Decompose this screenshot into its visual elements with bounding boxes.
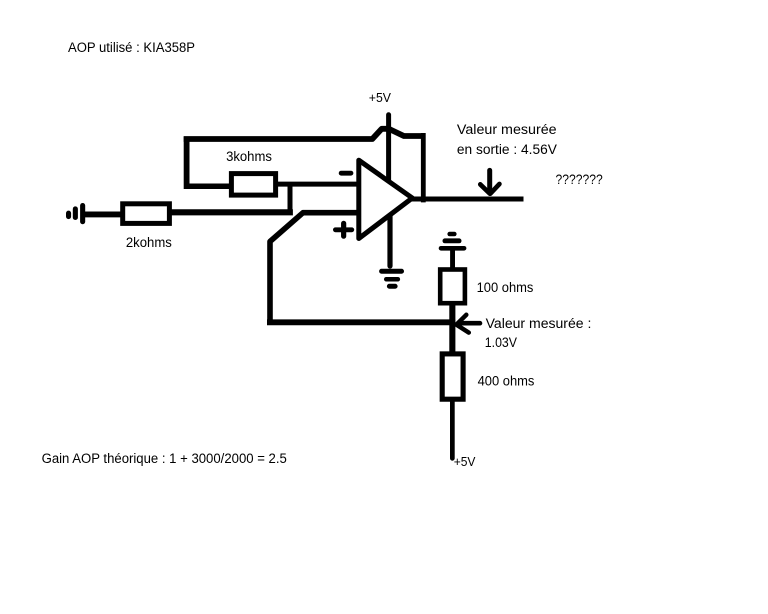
svg-text:1.03V: 1.03V (485, 335, 517, 350)
svg-text:+5V: +5V (369, 90, 391, 105)
svg-text:AOP utilisé : KIA358P: AOP utilisé : KIA358P (68, 40, 195, 55)
svg-text:400 ohms: 400 ohms (478, 373, 535, 388)
svg-text:Valeur mesurée: Valeur mesurée (457, 122, 557, 137)
svg-text:3kohms: 3kohms (226, 149, 272, 164)
svg-text:???????: ??????? (556, 171, 603, 187)
svg-text:en sortie : 4.56V: en sortie : 4.56V (457, 142, 557, 157)
svg-text:+5V: +5V (454, 454, 476, 469)
svg-text:100 ohms: 100 ohms (477, 280, 534, 295)
svg-text:Gain AOP théorique : 1 + 3000/: Gain AOP théorique : 1 + 3000/2000 = 2.5 (42, 451, 287, 466)
svg-text:Valeur mesurée :: Valeur mesurée : (486, 316, 592, 331)
svg-text:2kohms: 2kohms (126, 235, 172, 250)
